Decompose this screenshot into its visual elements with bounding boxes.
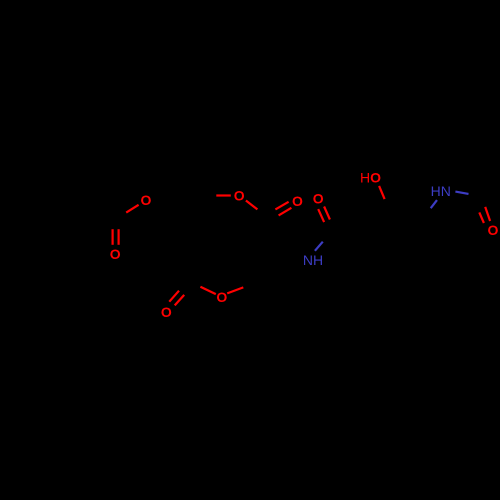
svg-text:O: O (488, 222, 499, 238)
double bond C=O2 right line (117, 229, 119, 245)
svg-text:O: O (161, 304, 172, 320)
double bond C=O9 left line (formyl carbonyl) (479, 212, 484, 223)
svg-text:HO: HO (360, 170, 381, 186)
bond NH-C(=O) half-bond (amide N, up-right) (315, 242, 323, 251)
svg-text:HN: HN (431, 183, 451, 199)
bond HN-ring half-bond (down-left) (431, 200, 437, 208)
svg-text:O: O (216, 289, 227, 305)
double bond C=O11 upper line (bottom lactone carbonyl) (169, 291, 179, 302)
double bond C=O2 left line (left ester carbonyl) (111, 229, 113, 245)
double bond C=O11 lower line (175, 295, 185, 306)
double bond C=O5 left line (amide carbonyl) (318, 209, 324, 222)
bond O1-C(=O) half-bond (left ester linking O, down-left) (126, 205, 138, 213)
bond O10 left half-bond (bottom ring O, up-left) (200, 287, 215, 294)
svg-text:O: O (313, 191, 324, 207)
svg-text:O: O (141, 192, 152, 208)
svg-text:O: O (292, 193, 303, 209)
bond HO-C half-bond (hydroxyl, down-right) (379, 186, 385, 199)
double bond C=O5 right line (324, 207, 330, 220)
svg-text:O: O (234, 188, 245, 204)
bond O3 left half-bond (top middle ring O, horizontal) (216, 194, 231, 196)
svg-text:NH: NH (303, 252, 323, 268)
bond O3 right half-bond (down-right) (246, 201, 258, 210)
svg-text:O: O (110, 246, 121, 262)
double bond C=O9 right line (485, 207, 490, 221)
bond HN-CHO half-bond (formamide N, right) (455, 192, 468, 194)
bond O10 right half-bond (up-right) (227, 287, 243, 293)
double bond C=O4 upper line (top ring-ester carbonyl) (275, 202, 288, 210)
double bond C=O4 lower line (279, 208, 292, 216)
